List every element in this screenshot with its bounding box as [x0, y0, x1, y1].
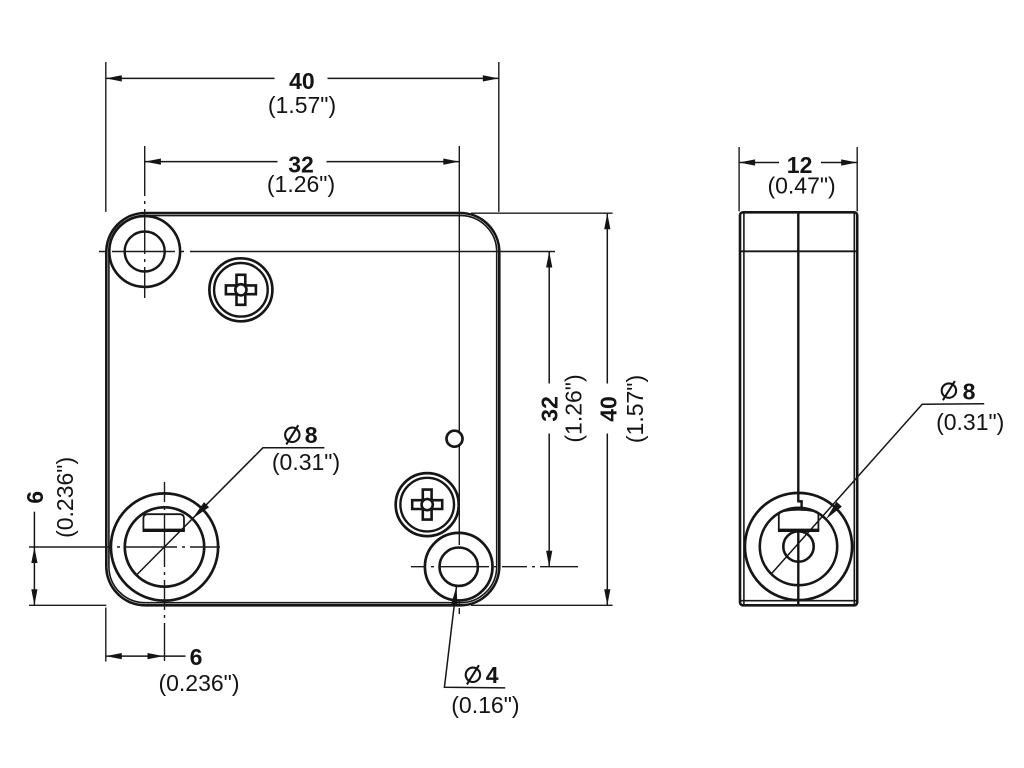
dim 12 right arrow: [841, 159, 857, 165]
screw top phillips cross: [226, 275, 256, 305]
dim 40 right vertical line: [606, 213, 608, 383]
dim 40 top right arrow: [483, 75, 499, 81]
svg-text:(0.47"): (0.47"): [767, 172, 835, 198]
side view hole outer circle: [745, 493, 852, 600]
side view hole shaft circle: [783, 531, 813, 561]
screw top head: [209, 258, 272, 321]
hole bottom-left bore dia 8: [125, 507, 204, 586]
svg-text:(1.26"): (1.26"): [561, 374, 587, 442]
label dia8 side diameter symbol: [942, 383, 956, 397]
dim 32 right vertical line: [548, 252, 550, 384]
svg-text:(0.16"): (0.16"): [451, 692, 519, 718]
svg-text:(1.57"): (1.57"): [268, 92, 336, 118]
slot notch bottom-left hole: [143, 514, 184, 531]
front view inner contour: [109, 216, 497, 603]
svg-text:40: 40: [289, 68, 315, 94]
svg-text:4: 4: [486, 662, 499, 688]
dim 32 right top arrow: [546, 252, 552, 268]
screw top center pin: [235, 284, 246, 295]
slot notch floor bottom-left hole: [143, 529, 185, 532]
dim 40 right top extension: [471, 212, 613, 214]
leader dia4 arrowhead: [451, 586, 458, 606]
hole top-left bore: [125, 232, 165, 272]
svg-text:8: 8: [963, 379, 976, 405]
svg-text:(1.26"): (1.26"): [267, 171, 335, 197]
side view bottom wall line: [741, 600, 856, 602]
dim 6 left bottom arrow: [31, 589, 37, 605]
leader dia8 side line: [771, 404, 984, 574]
side view body outline: [740, 212, 857, 605]
leader dia4 line: [444, 586, 505, 688]
label dia4 diameter symbol: [466, 668, 480, 682]
dim 40 right bottom extension: [471, 604, 613, 606]
dim 12 left arrow: [739, 159, 755, 165]
dim 40 right top arrow: [604, 213, 610, 229]
label dia8 front diameter symbol: [285, 428, 299, 442]
dim 40 right bottom arrow: [604, 589, 610, 605]
dim 6 left vertical line: [33, 512, 35, 606]
screw bottom head: [396, 473, 459, 536]
dim 32 top right arrow: [443, 159, 459, 165]
dim 6 left bottom extension: [29, 604, 106, 606]
dim 6 bottom line: [106, 655, 186, 657]
dim 40 top left arrow: [106, 75, 122, 81]
screw top rim: [214, 263, 268, 317]
centerline bottom-left hole vertical: [164, 482, 166, 661]
leader dia8 front line: [136, 448, 324, 575]
side view right wall line: [853, 214, 855, 605]
centerline top-left hole vertical: [144, 146, 146, 298]
side view slot notch floor: [778, 529, 819, 532]
dim 6 bottom left arrow: [106, 653, 122, 659]
dim 6 bottom right arrow: [148, 653, 164, 659]
hole bottom-left counterbore: [111, 493, 218, 600]
dim 12 right extension: [856, 147, 858, 211]
svg-text:8: 8: [305, 422, 318, 448]
dim 32 right bottom arrow: [546, 551, 552, 567]
dim 6 left top arrow: [31, 547, 37, 563]
side view parting line: [740, 250, 857, 252]
svg-text:6: 6: [22, 491, 48, 504]
svg-text:(0.236"): (0.236"): [158, 670, 239, 696]
extension line 32dim right vertical: [458, 146, 460, 545]
side view slot notch: [779, 510, 819, 531]
leader dia8 side arrowhead: [826, 502, 842, 519]
svg-text:6: 6: [190, 644, 203, 670]
dim 32 top line: [145, 161, 278, 163]
svg-text:(0.236"): (0.236"): [52, 457, 78, 538]
front view body outline: [106, 213, 499, 605]
centerline top-left hole horizontal: [99, 251, 555, 253]
dim 6 bottom left extension: [105, 608, 107, 662]
hole bottom-right counterbore: [425, 533, 493, 601]
screw bottom phillips cross: [412, 490, 442, 520]
hole top-left counterbore: [109, 216, 180, 287]
centerline bottom-right hole horizontal: [411, 566, 578, 568]
side view left wall line: [743, 214, 745, 605]
screw bottom rim: [400, 478, 454, 532]
svg-text:(1.57"): (1.57"): [622, 375, 648, 443]
screw bottom center pin: [422, 499, 433, 510]
centerline bottom-right hole below body: [458, 600, 460, 614]
side view hole dia 8 circle: [760, 508, 837, 585]
dim 12 left extension: [738, 147, 740, 211]
leader dia8 front arrowhead: [192, 502, 209, 519]
dim 40 top line: [106, 77, 275, 79]
side view center seam line upper: [798, 213, 801, 510]
svg-text:32: 32: [536, 396, 562, 422]
small pilot hole: [447, 431, 463, 447]
svg-text:(0.31"): (0.31"): [272, 449, 340, 475]
hole bottom-right bore dia 4: [440, 548, 478, 586]
svg-text:40: 40: [596, 396, 622, 422]
side view center seam line lower: [797, 530, 799, 604]
dim 40 top left extension: [105, 62, 107, 212]
centerline bottom-left hole horizontal: [29, 546, 228, 548]
svg-text:(0.31"): (0.31"): [936, 409, 1004, 435]
dim 40 top right extension: [498, 62, 500, 212]
dim 32 top left arrow: [145, 159, 161, 165]
dim 12 side line: [739, 162, 779, 164]
